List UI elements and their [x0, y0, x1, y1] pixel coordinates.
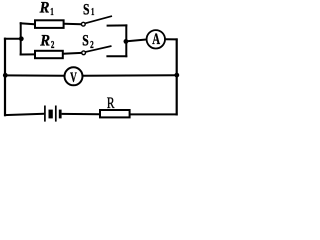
wire ammeter lead right [165, 38, 178, 40]
ammeter A [147, 30, 165, 48]
wire ammeter lead left [126, 40, 146, 42]
svg-text:S: S [82, 33, 89, 50]
wire R1 lead left [20, 23, 35, 24]
node junction dot right branch [124, 39, 129, 44]
wire R1 lead right [64, 23, 81, 25]
svg-text:S: S [83, 1, 90, 18]
wire voltmeter row left [4, 74, 64, 76]
node junction dot left rail voltmeter row [3, 73, 8, 78]
wire R2 lead left [20, 53, 35, 55]
wire S1 fixed contact lead [107, 24, 128, 26]
wire right inner vertical [125, 24, 127, 57]
battery cell 2 short plate [59, 110, 62, 119]
node junction dot right rail voltmeter row [174, 73, 179, 78]
wire resistor R to right rail [130, 113, 178, 115]
wire voltmeter row right [83, 74, 177, 77]
svg-text:R: R [39, 0, 50, 17]
wire battery to resistor R [62, 113, 100, 115]
switch S1 pivot circle [81, 22, 85, 26]
svg-text:1: 1 [50, 6, 54, 18]
switch S2 pivot circle [82, 51, 86, 55]
switch S1 blade [85, 16, 112, 23]
svg-text:V: V [70, 70, 77, 86]
wire left rail [4, 38, 6, 117]
svg-text:R: R [107, 95, 115, 112]
svg-text:1: 1 [91, 6, 94, 18]
wire left connector to parallel branches [4, 38, 22, 40]
wire right rail [176, 38, 178, 115]
wire R2 lead right [63, 52, 82, 55]
wire inner-left vertical between R1 and R2 branches [20, 22, 22, 55]
resistor R2 [35, 51, 63, 58]
battery cell 1 short plate [49, 110, 53, 119]
wire bottom left to battery [4, 114, 44, 115]
resistor R1 [35, 20, 64, 28]
wire S2 fixed contact lead [106, 55, 127, 57]
battery cell 2 long plate [55, 106, 57, 122]
node junction dot left branch [19, 36, 24, 41]
svg-text:2: 2 [51, 39, 55, 51]
voltmeter V [65, 67, 83, 85]
svg-text:2: 2 [90, 39, 94, 51]
svg-text:A: A [152, 31, 160, 48]
svg-text:R: R [39, 32, 50, 49]
battery cell 1 long plate [44, 106, 46, 122]
resistor R [100, 110, 130, 117]
switch S2 blade [86, 46, 112, 52]
